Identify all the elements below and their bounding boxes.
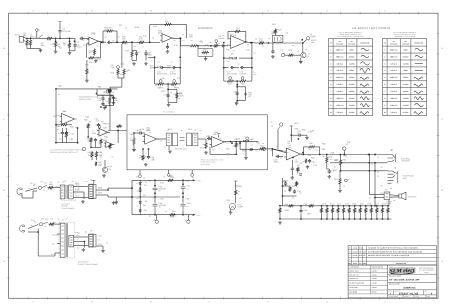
wire xyxy=(381,206,383,207)
wire xyxy=(32,191,34,198)
resistor R61h xyxy=(339,178,341,186)
wire xyxy=(387,206,389,207)
ground G2 xyxy=(54,50,58,53)
wire ladder1 left rail xyxy=(154,57,156,84)
wire switch down xyxy=(277,130,279,149)
wire into ladder1 xyxy=(148,56,155,58)
wire xyxy=(239,142,241,150)
wire sec to conn 2 xyxy=(73,197,88,199)
wire xyxy=(319,147,321,155)
transformer T1 core xyxy=(66,185,67,199)
svg-text:875247-01/1B: 875247-01/1B xyxy=(399,292,419,295)
svg-text:U1A: U1A xyxy=(92,32,97,35)
wire osc left leg xyxy=(96,89,98,95)
svg-text:1-29-96: 1-29-96 xyxy=(372,282,377,284)
wire xyxy=(154,180,156,185)
transformer T2 dashed case xyxy=(59,223,75,259)
bottom row dividers xyxy=(393,290,395,295)
resistor R52 xyxy=(235,142,237,148)
wire xyxy=(265,42,269,44)
svg-text:xx: xx xyxy=(276,145,278,148)
junction xyxy=(122,41,124,43)
diode D5 xyxy=(299,174,302,176)
wire plug to spk xyxy=(390,194,399,197)
svg-text:x: x xyxy=(381,210,382,213)
wire U2 out xyxy=(172,37,181,39)
junction xyxy=(272,148,274,150)
svg-text:xx: xx xyxy=(338,154,340,157)
+V supply tick xyxy=(59,22,62,24)
svg-text:xx: xx xyxy=(238,190,240,193)
svg-text:+42V: +42V xyxy=(294,122,299,125)
junction xyxy=(167,83,169,85)
svg-text:PLOT DATE: PLOT DATE xyxy=(349,287,357,289)
resistor RB16 xyxy=(308,205,315,207)
svg-text:xx: xx xyxy=(110,42,112,45)
wire rung3 left xyxy=(224,80,226,82)
svg-text:SHEET: SHEET xyxy=(404,296,409,298)
junction xyxy=(182,183,184,185)
wire xyxy=(365,206,367,207)
svg-text:xx: xx xyxy=(174,39,176,42)
svg-text:6: 6 xyxy=(330,83,331,86)
diode D1 xyxy=(139,182,142,186)
diode pair D6 D7 xyxy=(230,57,237,59)
svg-text:xx: xx xyxy=(149,131,151,134)
junction xyxy=(326,218,328,220)
svg-text:xx: xx xyxy=(163,176,165,179)
wire xyxy=(95,142,97,148)
svg-text:xx: xx xyxy=(58,93,60,96)
resistor R11 xyxy=(138,41,145,43)
wire xyxy=(228,30,234,32)
resistor R67 xyxy=(49,223,56,225)
junction xyxy=(107,189,109,191)
svg-text:DWG: DWG xyxy=(389,291,392,293)
svg-text:xx: xx xyxy=(58,218,60,221)
resistor R22 xyxy=(258,42,265,44)
junction xyxy=(319,154,321,156)
junction xyxy=(374,170,376,172)
svg-text:xx: xx xyxy=(295,159,297,162)
resistor R44 xyxy=(100,139,102,145)
junction xyxy=(139,187,141,189)
wire U5B fb bottom xyxy=(210,153,236,155)
capacitor C35 + xyxy=(153,186,158,194)
wire xyxy=(219,45,221,47)
svg-text:xx: xx xyxy=(149,215,151,218)
wire fb up xyxy=(100,42,102,58)
junction xyxy=(179,37,181,39)
ground G29 xyxy=(81,200,85,203)
svg-text:1-29-96: 1-29-96 xyxy=(372,274,377,276)
wire xyxy=(136,54,138,60)
svg-text:xx: xx xyxy=(262,142,264,145)
svg-text:RED: RED xyxy=(98,192,103,195)
svg-text:xx: xx xyxy=(28,187,30,190)
speaker SP1 xyxy=(399,192,406,200)
svg-text:1M: 1M xyxy=(247,44,250,47)
wire to T2 xyxy=(55,223,60,225)
svg-text:x: x xyxy=(364,210,365,213)
ground G25 xyxy=(328,175,332,178)
resistor R26 xyxy=(123,69,125,76)
junction xyxy=(387,218,389,220)
junction xyxy=(142,148,144,150)
pin supply test 2 xyxy=(187,220,190,223)
ground G28 xyxy=(114,201,118,204)
wire xyxy=(123,76,125,79)
junction xyxy=(154,179,156,181)
svg-text:xx: xx xyxy=(381,184,383,187)
svg-text:xx: xx xyxy=(249,95,251,98)
wire xyxy=(241,30,246,32)
test point table left grid xyxy=(329,39,373,116)
svg-text:SD: SD xyxy=(363,255,365,257)
junction xyxy=(102,41,104,43)
junction xyxy=(154,185,156,187)
wire sec to gnd xyxy=(73,191,84,193)
resistor R15 xyxy=(202,51,210,53)
arrow +V xyxy=(193,179,196,181)
junction xyxy=(223,42,225,44)
pin supply test 1 xyxy=(155,220,158,223)
capacitor C37 + xyxy=(181,184,186,193)
wire xyxy=(102,31,104,42)
svg-text:xx: xx xyxy=(159,189,161,192)
junction xyxy=(343,154,345,156)
svg-text:xx: xx xyxy=(66,218,68,221)
svg-text:xx: xx xyxy=(92,130,94,133)
svg-text:xx: xx xyxy=(64,180,66,183)
wire down from rung3 xyxy=(236,81,238,101)
junction xyxy=(348,218,350,220)
wire xyxy=(28,231,38,233)
capacitor C32 xyxy=(328,170,331,174)
wire to plug pin1 xyxy=(369,194,384,196)
junction xyxy=(167,89,169,91)
svg-text:xx: xx xyxy=(125,27,127,30)
wire xyxy=(348,206,350,207)
svg-text:JACK: JACK xyxy=(402,177,407,180)
svg-text:xx: xx xyxy=(99,144,101,147)
svg-text:RLD: RLD xyxy=(359,255,362,257)
resistor R28 pot xyxy=(171,83,179,85)
pot SPEED P7 xyxy=(98,125,101,128)
junction xyxy=(236,86,238,88)
junction xyxy=(131,41,133,43)
resistor R60 xyxy=(339,159,341,166)
wire osc right leg xyxy=(112,95,114,106)
svg-text:xx: xx xyxy=(316,149,318,152)
svg-text:RED: RED xyxy=(76,232,81,235)
junction xyxy=(55,142,57,144)
wire xyxy=(240,149,249,151)
svg-text:xx: xx xyxy=(137,182,139,185)
+V tick PA xyxy=(290,126,293,128)
op-amp U1A xyxy=(87,37,101,45)
junction xyxy=(382,218,384,220)
wire T2 sec out1 xyxy=(74,236,88,238)
junction xyxy=(179,56,181,58)
ground G31 xyxy=(82,248,86,251)
svg-text:xx: xx xyxy=(305,48,307,51)
wire to R10 xyxy=(110,41,121,43)
svg-text:xx: xx xyxy=(187,205,189,208)
wire xyxy=(87,129,89,137)
capacitor C19 xyxy=(101,97,104,101)
ground G10 xyxy=(271,55,275,58)
svg-text:xx: xx xyxy=(159,206,161,209)
resistor R56 xyxy=(308,146,316,148)
wire xyxy=(154,193,156,197)
+V tick lamp xyxy=(234,181,237,183)
wire box lead R xyxy=(280,41,282,44)
junction xyxy=(340,154,342,156)
wire sec to conn 1 xyxy=(73,186,88,188)
junction xyxy=(376,205,378,207)
wire oscillator frame xyxy=(56,89,118,120)
wire xyxy=(54,253,56,256)
wire loop1 left xyxy=(167,89,169,102)
junction xyxy=(354,218,356,220)
svg-text:xx: xx xyxy=(89,121,91,124)
reverb tank coil L1 xyxy=(166,133,171,146)
svg-text:xx: xx xyxy=(284,190,286,193)
wire xyxy=(182,180,184,184)
wire osc junction bar xyxy=(97,94,113,96)
+V tick U5B xyxy=(217,134,220,136)
svg-text:xx: xx xyxy=(112,156,114,159)
AC plug P3 xyxy=(19,225,25,232)
wire xyxy=(332,213,334,219)
junction xyxy=(149,41,151,43)
svg-text:xx: xx xyxy=(212,149,214,152)
resistor R42 xyxy=(87,123,89,129)
capacitor C7 xyxy=(135,52,138,56)
svg-text:xx: xx xyxy=(160,140,162,143)
wire xyxy=(145,54,147,60)
capacitor C20b xyxy=(244,92,247,96)
wire T2 sec out2 xyxy=(74,245,88,247)
svg-text:xx: xx xyxy=(170,91,172,94)
capacitor C19b xyxy=(236,92,239,96)
reverb tank link xyxy=(180,138,185,141)
svg-text:7: 7 xyxy=(384,90,385,93)
wire xyxy=(102,104,104,107)
wire xyxy=(103,30,106,32)
pin footswitch jack J2 xyxy=(306,37,309,40)
wire xyxy=(70,37,76,39)
connector J9 xyxy=(89,234,93,247)
wire xyxy=(114,30,118,32)
svg-text:xx: xx xyxy=(31,224,33,227)
fuse F2 xyxy=(39,223,42,226)
ground G13 xyxy=(167,103,171,106)
wire xyxy=(133,146,135,149)
svg-text:xx: xx xyxy=(200,129,202,132)
junction xyxy=(131,187,133,189)
wire xyxy=(348,213,350,219)
wire xyxy=(118,77,124,79)
junction xyxy=(376,218,378,220)
svg-text:1-29-96: 1-29-96 xyxy=(372,270,377,272)
svg-text:xx: xx xyxy=(72,180,74,183)
wire plug gnd xyxy=(21,195,23,199)
svg-text:SPR: SPR xyxy=(363,251,366,253)
wire xyxy=(121,78,123,87)
wire xyxy=(381,213,383,219)
svg-text:xx: xx xyxy=(330,158,332,161)
resistor RB1 xyxy=(320,207,322,213)
svg-text:xx: xx xyxy=(218,42,220,45)
svg-text:xx: xx xyxy=(63,42,65,45)
wire PA out xyxy=(301,154,330,156)
svg-text:REVERB UNIT: REVERB UNIT xyxy=(175,148,188,151)
junction xyxy=(374,205,376,207)
svg-text:xx: xx xyxy=(298,50,300,53)
junction xyxy=(340,170,342,172)
wire fb left leg xyxy=(149,24,151,42)
switch S1 standby xyxy=(278,127,280,131)
wire volume out left xyxy=(110,86,122,88)
capacitor C34 xyxy=(293,190,296,194)
svg-text:xx: xx xyxy=(192,176,194,179)
junction xyxy=(223,45,225,47)
capacitor C27 xyxy=(207,137,211,140)
svg-text:10: 10 xyxy=(330,111,332,114)
pot P11 below box xyxy=(191,174,194,177)
op-amp U5B reverb recovery xyxy=(210,137,227,148)
resistor R36 xyxy=(86,68,88,75)
capacitor C14 xyxy=(160,66,164,69)
ground G32 xyxy=(101,249,105,252)
resistor R61 xyxy=(289,186,291,192)
wire xyxy=(167,43,169,45)
resistor R43 xyxy=(90,137,92,143)
wire xyxy=(38,255,55,257)
svg-text:xx: xx xyxy=(134,45,136,48)
pin J3 xyxy=(281,54,284,57)
wire node to Q1 xyxy=(302,43,304,53)
wire xyxy=(235,183,237,189)
svg-text:xx: xx xyxy=(323,155,325,158)
op-amp U5A reverb drive xyxy=(143,134,159,144)
wire xyxy=(115,197,117,201)
resistor RB9 xyxy=(365,207,367,213)
svg-text:TRANSFORMER: TRANSFORMER xyxy=(61,207,75,210)
svg-text:xx: xx xyxy=(145,155,147,158)
wire xyxy=(326,164,328,170)
svg-text:x: x xyxy=(358,210,359,213)
resistor R48 xyxy=(109,143,111,149)
svg-text:xx: xx xyxy=(126,70,128,73)
svg-text:9: 9 xyxy=(384,104,385,107)
lamp DS2 oscillator xyxy=(108,89,112,93)
junction xyxy=(96,93,98,95)
svg-text:x: x xyxy=(370,210,371,213)
wire bridge left leg xyxy=(131,180,133,214)
pot BASS P5 xyxy=(159,80,162,83)
junction xyxy=(131,196,133,198)
wire xyxy=(300,58,302,61)
switch S3 xyxy=(43,222,48,224)
svg-text:PA-100R ONLY: PA-100R ONLY xyxy=(163,110,176,113)
wire xyxy=(30,46,32,48)
wire xyxy=(370,213,372,219)
wire xyxy=(102,95,104,96)
wire C2 down xyxy=(59,33,61,38)
junction xyxy=(354,205,356,207)
wire xyxy=(340,155,342,160)
svg-text:9: 9 xyxy=(330,104,331,107)
svg-text:xx: xx xyxy=(369,197,371,200)
junction xyxy=(74,40,76,42)
resistor R24 xyxy=(288,54,295,56)
wire xyxy=(96,245,103,247)
wire pot stub xyxy=(191,170,193,174)
wire xyxy=(230,209,232,211)
wire wiper xyxy=(215,43,217,45)
wire xyxy=(90,143,92,147)
resistor R65 xyxy=(169,214,176,216)
junction xyxy=(131,187,133,189)
capacitor C38 + xyxy=(181,202,186,211)
pot wiper P13 xyxy=(241,77,244,80)
wire R23 to box xyxy=(275,34,277,35)
junction xyxy=(59,38,61,40)
svg-text:xx: xx xyxy=(105,36,107,39)
wire xyxy=(205,139,207,142)
junction xyxy=(133,132,135,134)
svg-text:SW: SW xyxy=(311,41,314,44)
wire stub xyxy=(110,95,114,97)
wire -V rail xyxy=(132,214,195,216)
resistor R31 xyxy=(226,80,234,82)
junction xyxy=(359,205,361,207)
wire xyxy=(142,149,144,155)
junction xyxy=(279,205,281,207)
wire second rail xyxy=(330,162,388,164)
junction xyxy=(337,205,339,207)
wire bias row top rail xyxy=(280,205,389,207)
capacitor C23 xyxy=(97,123,100,127)
resistor RB6 xyxy=(348,207,350,213)
resistor R40 xyxy=(60,124,68,126)
svg-text:x: x xyxy=(342,210,343,213)
wire xyxy=(316,146,320,148)
capacitor C10 xyxy=(166,45,169,49)
wire xyxy=(91,146,101,148)
junction xyxy=(290,134,292,136)
junction xyxy=(179,67,181,69)
AC plug P2 xyxy=(17,188,23,195)
pot wiper P12 xyxy=(229,77,232,80)
resistor R62 xyxy=(295,181,297,186)
svg-text:2: 2 xyxy=(384,55,385,58)
junction xyxy=(210,45,212,47)
svg-text:FILE NAME: FILE NAME xyxy=(349,292,357,294)
wire tap1 xyxy=(57,233,60,235)
svg-text:xx: xx xyxy=(273,31,275,34)
jack J5 external speaker xyxy=(388,154,396,162)
resistor RB13 xyxy=(387,207,389,213)
resistor RB8 xyxy=(359,207,361,213)
title block right grid xyxy=(388,273,437,275)
junction xyxy=(116,41,118,43)
svg-text:xx: xx xyxy=(78,187,80,190)
pot DRIVE P3 xyxy=(215,40,218,43)
